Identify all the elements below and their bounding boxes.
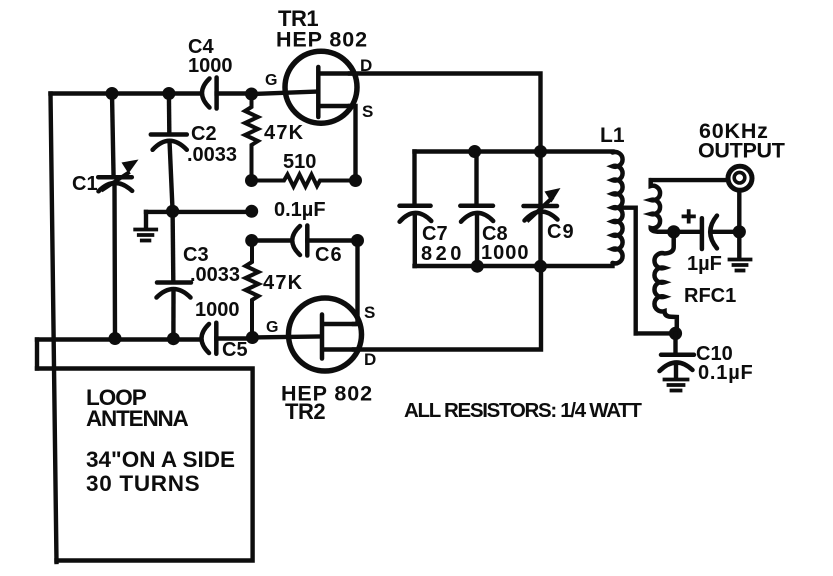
wire antenna step xyxy=(35,340,39,369)
wire C6 row xyxy=(252,238,292,242)
loop antenna box xyxy=(37,369,253,561)
svg-text:C3: C3 xyxy=(183,244,209,266)
capacitor C9 (variable) xyxy=(524,152,561,267)
wire L1 tap xyxy=(620,208,636,334)
node J (C1 bottom) xyxy=(109,332,122,345)
node G2 (bias junction) xyxy=(245,205,258,218)
svg-text:1000: 1000 xyxy=(481,242,530,264)
node K (C3 bottom) xyxy=(167,332,180,345)
svg-text:1000: 1000 xyxy=(188,55,233,77)
svg-text:TR2: TR2 xyxy=(285,399,325,424)
transistor TR1 xyxy=(285,51,357,123)
svg-text:ALL RESISTORS: 1/4 WATT: ALL RESISTORS: 1/4 WATT xyxy=(404,399,642,422)
svg-text:1µF: 1µF xyxy=(687,253,722,275)
svg-text:C1: C1 xyxy=(72,173,98,195)
svg-text:30 TURNS: 30 TURNS xyxy=(86,471,200,496)
wire TR1 gate lead xyxy=(252,92,319,95)
ground (output) xyxy=(730,260,751,271)
capacitor C1 (variable) xyxy=(98,94,138,339)
resistor 47K lower xyxy=(246,241,259,338)
transistor TR2 xyxy=(289,298,362,371)
capacitor C8 xyxy=(460,152,493,267)
ground (C10) xyxy=(665,380,688,391)
wire ground row y=211 xyxy=(146,210,252,214)
svg-text:C9: C9 xyxy=(547,221,575,243)
resistor 47K upper xyxy=(245,94,258,181)
capacitor C3 xyxy=(157,211,192,338)
svg-text:OUTPUT: OUTPUT xyxy=(698,139,785,163)
coil upper (output link) xyxy=(651,180,667,232)
inductor L1 xyxy=(613,152,623,263)
svg-text:G: G xyxy=(265,72,277,89)
svg-text:HEP 802: HEP 802 xyxy=(276,28,368,52)
node O (tank bottom C8) xyxy=(471,260,484,273)
svg-text:C6: C6 xyxy=(315,244,343,266)
node E (510 right) xyxy=(349,174,362,187)
svg-text:.0033: .0033 xyxy=(187,144,237,166)
svg-text:C5: C5 xyxy=(222,339,248,361)
wire tank bottom xyxy=(415,264,613,268)
node I (C6 right) xyxy=(351,234,364,247)
svg-text:D: D xyxy=(360,56,372,75)
wire tank top xyxy=(415,149,613,153)
node N (tank top C9) xyxy=(534,145,547,158)
wire TR1 drain to tank top xyxy=(350,74,541,152)
capacitor C5 xyxy=(202,323,217,354)
svg-text:C2: C2 xyxy=(191,123,217,145)
svg-text:47K: 47K xyxy=(263,272,303,294)
node D (510 left) xyxy=(245,174,258,187)
ground (left) xyxy=(135,212,156,241)
inductor RFC1 xyxy=(654,232,676,331)
wire left column / antenna left lead xyxy=(51,94,57,563)
wire bottom bus (TR2 gate row) xyxy=(37,337,320,340)
svg-text:RFC1: RFC1 xyxy=(684,285,736,307)
svg-text:510: 510 xyxy=(283,151,316,173)
wire TR1 source down xyxy=(350,106,356,181)
svg-text:L1: L1 xyxy=(600,124,625,147)
svg-text:1000: 1000 xyxy=(195,299,240,321)
wire TR2 source up to C6 row xyxy=(354,241,358,325)
node Q (1uF left) xyxy=(667,225,680,238)
capacitor C2 xyxy=(151,94,187,212)
node S2 (C10 junction) xyxy=(669,327,682,340)
capacitor C4 xyxy=(202,78,217,109)
wire TR2 drain to tank bottom xyxy=(354,266,541,349)
wire output top xyxy=(651,178,726,182)
svg-text:0.1µF: 0.1µF xyxy=(274,199,326,221)
output jack xyxy=(728,166,752,190)
svg-text:.0033: .0033 xyxy=(190,264,240,286)
svg-text:820: 820 xyxy=(421,243,465,265)
svg-text:S: S xyxy=(364,303,375,322)
resistor 510 xyxy=(252,175,356,187)
wire top bus y=94 xyxy=(51,91,252,95)
svg-text:47K: 47K xyxy=(264,122,304,144)
capacitor C6 xyxy=(292,226,307,256)
svg-text:34"ON A SIDE: 34"ON A SIDE xyxy=(86,447,235,472)
node P (tank bottom C9) xyxy=(534,260,547,273)
node A (C1 top) xyxy=(106,87,119,100)
svg-text:0.1µF: 0.1µF xyxy=(698,362,754,384)
capacitor 1uF xyxy=(674,211,740,249)
wire tap to C10 junction xyxy=(636,331,676,335)
node C (TR1 gate) xyxy=(245,88,258,101)
node M (tank top C8) xyxy=(468,145,481,158)
node H (C6 left) xyxy=(245,234,258,247)
svg-text:S: S xyxy=(362,102,373,121)
node B (C2 top) xyxy=(162,87,175,100)
capacitor C7 xyxy=(400,152,432,267)
svg-text:ANTENNA: ANTENNA xyxy=(86,406,189,431)
wire jack down xyxy=(737,191,741,258)
node L (TR2 gate) xyxy=(246,331,259,344)
node R (1uF right) xyxy=(733,225,746,238)
svg-text:G: G xyxy=(266,319,278,336)
svg-text:D: D xyxy=(364,350,376,369)
capacitor C10 xyxy=(660,333,695,378)
node F (C2/C3 junction) xyxy=(166,205,179,218)
svg-text:C7: C7 xyxy=(422,223,448,245)
